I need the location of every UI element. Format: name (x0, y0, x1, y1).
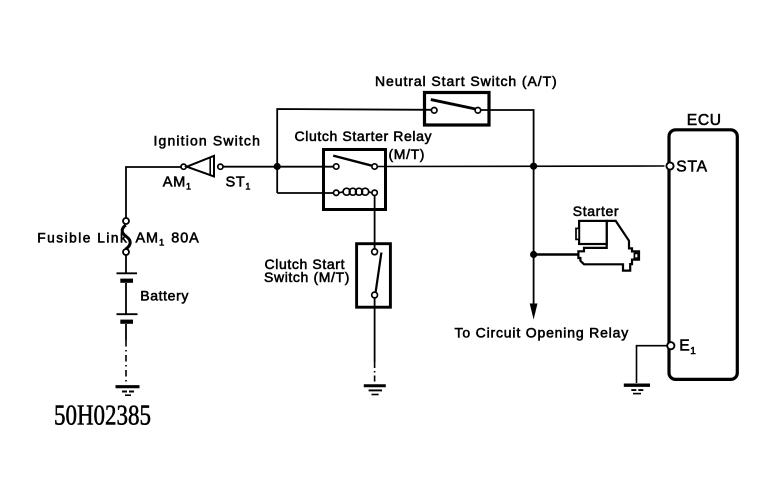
neutral start switch left contact circle (431, 108, 437, 114)
neutral start switch box (425, 93, 490, 126)
ECU box (669, 130, 737, 380)
ECU terminal STA circle (666, 162, 673, 169)
relay coil winding (339, 188, 372, 195)
wire: ST1 to node A (223, 166, 277, 168)
ignition switch terminal circle ST1 (218, 164, 223, 169)
ignition switch terminal circle AM1 (181, 164, 186, 169)
relay switch blade (333, 156, 372, 166)
battery B1 (117, 273, 138, 321)
wire: E1 to ground (637, 346, 668, 383)
starter motor body (578, 221, 639, 271)
starter pinion nose detail (634, 253, 638, 258)
clutch starter relay U1 box (324, 150, 386, 210)
svg-text:Ignition Switch: Ignition Switch (154, 132, 262, 148)
svg-text:STA: STA (676, 159, 708, 176)
svg-text:To Circuit Opening Relay: To Circuit Opening Relay (455, 325, 630, 341)
svg-text:Fusible Link: Fusible Link (37, 231, 128, 246)
svg-text:AM1: AM1 (163, 174, 192, 191)
relay switch right contact circle (372, 164, 377, 169)
ignition switch key symbol (187, 156, 214, 177)
fusible link bottom terminal circle (123, 249, 129, 255)
clutch start switch box (357, 244, 391, 308)
wire: battery vertical riser top corner to ignition switch AM1 (126, 167, 181, 218)
neutral start switch blade (431, 100, 476, 109)
wire: relay output to ECU STA (377, 165, 664, 168)
ground: clutch start switch (364, 386, 386, 395)
node A junction dot (274, 163, 281, 170)
wire: clutch start switch to ground, solid then dash-dot (374, 298, 376, 382)
wire: relay coil to clutch start switch (374, 196, 376, 250)
wire: node A up-branch to neutral start switch (277, 109, 431, 193)
wire: node A lower branch to relay coil (277, 192, 333, 194)
svg-text:AM180A: AM180A (136, 231, 200, 249)
svg-text:Starter: Starter (573, 203, 619, 219)
wire: battery to ground, solid then dash-dot (125, 324, 127, 382)
wire: node A to clutch starter relay switch input (277, 166, 333, 168)
node C junction dot starter branch (530, 251, 537, 258)
wire: neutral start switch output, right then down to arrow (481, 110, 534, 306)
svg-text:E1: E1 (679, 338, 696, 358)
fusible link AM1 80A element (122, 225, 130, 249)
svg-text:Battery: Battery (140, 287, 189, 303)
arrow to circuit opening relay (530, 304, 538, 320)
ground: battery (116, 387, 140, 396)
relay switch left contact circle (334, 164, 339, 169)
node B junction dot on STA line (530, 163, 537, 170)
svg-text:(M/T): (M/T) (389, 146, 426, 162)
neutral start switch right contact circle (475, 108, 481, 114)
relay coil left terminal circle (334, 190, 339, 195)
svg-text:ECU: ECU (687, 112, 722, 129)
svg-text:Switch (M/T): Switch (M/T) (264, 269, 350, 285)
ground: ECU E1 (624, 385, 650, 393)
svg-text:ST1: ST1 (226, 174, 252, 191)
wire: fusible link to battery (125, 255, 127, 273)
clutch start switch bottom contact circle (372, 292, 378, 298)
fusible link top terminal circle (123, 218, 129, 224)
ECU terminal E1 circle (667, 342, 674, 349)
clutch start switch top contact circle (372, 249, 378, 255)
clutch start switch blade (376, 253, 382, 293)
relay coil right terminal circle (372, 190, 377, 195)
svg-text:50H02385: 50H02385 (54, 401, 151, 432)
svg-text:Clutch Starter Relay: Clutch Starter Relay (295, 128, 433, 144)
svg-text:Neutral Start Switch (A/T): Neutral Start Switch (A/T) (375, 73, 558, 89)
starter solenoid (576, 221, 607, 244)
wire: node C to starter (534, 253, 579, 255)
